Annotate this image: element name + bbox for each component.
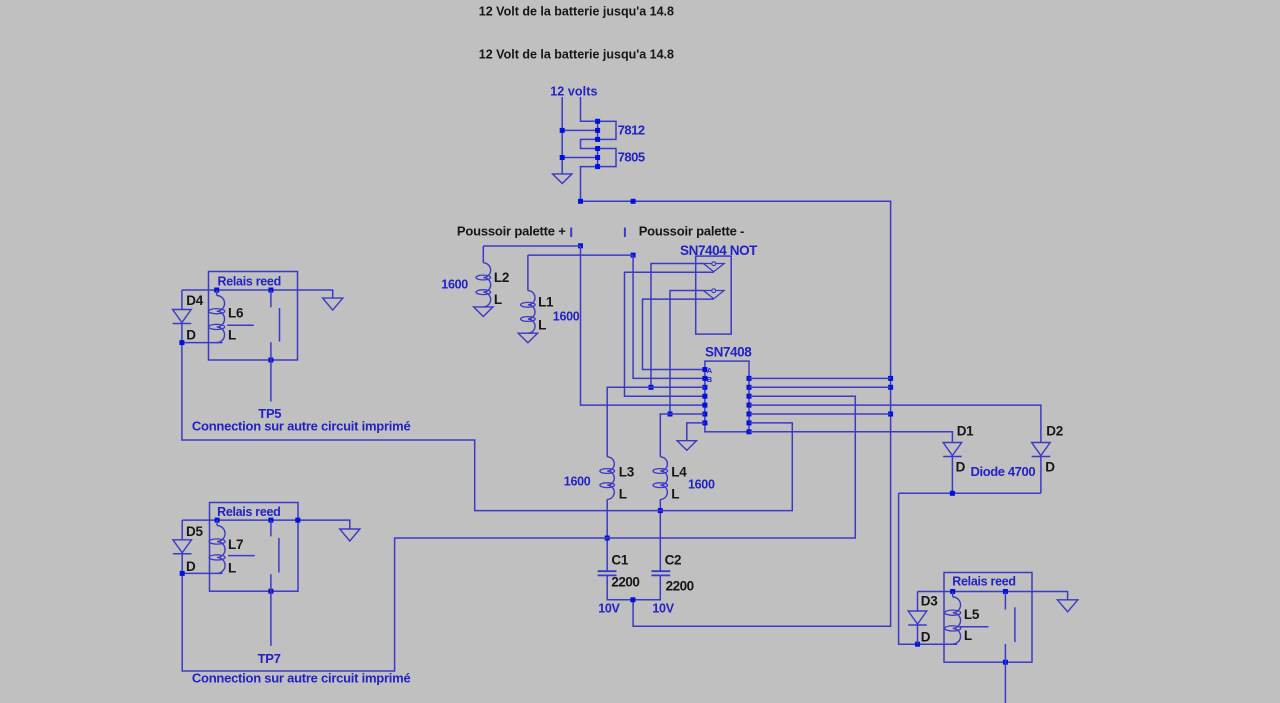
svg-text:12 volts: 12 volts [550,84,597,98]
svg-text:L: L [671,486,679,501]
svg-text:12 Volt de la batterie jusqu'a: 12 Volt de la batterie jusqu'a 14.8 [479,48,674,62]
svg-text:Relais reed: Relais reed [217,505,280,519]
svg-text:D2: D2 [1046,423,1063,438]
svg-text:Poussoir palette +: Poussoir palette + [457,223,566,238]
svg-text:Poussoir palette -: Poussoir palette - [639,223,744,238]
svg-text:L: L [538,317,546,332]
svg-text:L: L [619,486,627,501]
svg-text:SN7404 NOT: SN7404 NOT [680,243,758,258]
svg-text:D: D [186,559,196,574]
svg-text:B: B [707,375,713,384]
svg-text:C1: C1 [611,553,628,568]
svg-text:D3: D3 [921,593,938,608]
svg-text:L: L [964,628,972,643]
svg-text:SN7408: SN7408 [705,344,752,359]
svg-text:L: L [228,561,236,576]
svg-text:1600: 1600 [553,309,580,323]
svg-text:L5: L5 [964,607,980,622]
svg-text:Diode 4700: Diode 4700 [971,464,1036,479]
svg-text:Connection sur autre circuit i: Connection sur autre circuit imprimé [192,671,411,686]
svg-text:1600: 1600 [441,277,468,291]
svg-text:12 Volt de la batterie jusqu'a: 12 Volt de la batterie jusqu'a 14.8 [479,4,674,18]
svg-text:L7: L7 [228,537,243,552]
svg-text:A: A [707,366,713,375]
svg-text:7805: 7805 [618,150,645,165]
svg-text:10V: 10V [598,602,620,616]
svg-text:D1: D1 [957,423,974,438]
svg-text:L4: L4 [671,464,687,479]
svg-text:1600: 1600 [688,477,715,491]
svg-text:Relais reed: Relais reed [218,275,281,289]
svg-text:L: L [494,292,502,307]
svg-text:2200: 2200 [666,578,694,593]
svg-text:TP7: TP7 [258,651,281,666]
svg-text:1600: 1600 [564,474,591,488]
svg-text:7812: 7812 [618,122,645,137]
svg-text:10V: 10V [652,602,674,616]
svg-text:C2: C2 [665,553,682,568]
svg-text:2200: 2200 [611,575,639,590]
svg-text:Relais reed: Relais reed [952,575,1015,589]
svg-text:D: D [921,629,931,644]
svg-text:Connection sur autre circuit i: Connection sur autre circuit imprimé [192,419,411,434]
svg-text:L1: L1 [538,294,554,309]
svg-text:L2: L2 [494,270,509,285]
svg-text:L3: L3 [619,464,635,479]
svg-text:D: D [1045,460,1055,475]
svg-text:D: D [186,327,196,342]
svg-text:L: L [228,327,236,342]
svg-text:D4: D4 [186,293,203,308]
svg-text:D: D [956,460,966,475]
svg-text:L6: L6 [228,305,244,320]
svg-text:D5: D5 [186,524,203,539]
